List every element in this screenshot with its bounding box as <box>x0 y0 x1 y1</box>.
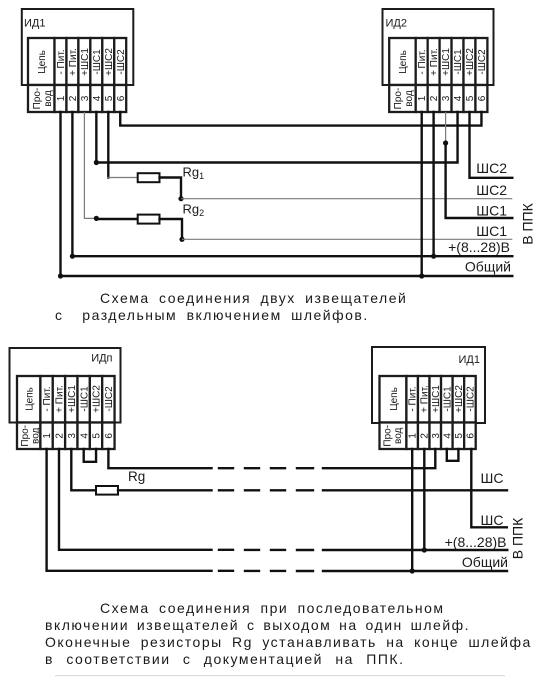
wire: resistor Rg2 to ШС1 line <box>160 219 183 239</box>
svg-text:-ШС2: -ШС2 <box>477 49 488 75</box>
wire: ИД2 pin3 to ШС1 line (to ППК) <box>446 143 513 218</box>
junction node at Rg2 input <box>94 216 99 221</box>
junction node ИД2 pin1 on Общий line <box>419 273 424 278</box>
terminal strip of ИДп: Провод row with pin numbers 1-6 <box>17 423 115 450</box>
wire: dashed middle of Общий line <box>219 570 313 573</box>
junction node at ИД1 pin2 corner <box>70 254 75 259</box>
pin labels of ИДп <box>24 385 115 413</box>
svg-text:+ШС2: +ШС2 <box>104 48 115 76</box>
svg-text:включении извещателей с выходо: включении извещателей с выходом на один … <box>45 617 470 633</box>
svg-text:ШС: ШС <box>481 512 504 528</box>
wire: dashed middle of +(8...28)В line <box>219 549 313 552</box>
junction node at ИД1 pin4 corner <box>94 160 99 165</box>
svg-text:2: 2 <box>419 433 430 439</box>
wire: resistor Rg1 to ШС2 line <box>160 178 182 199</box>
svg-text:1: 1 <box>408 433 419 439</box>
svg-text:4: 4 <box>442 433 453 439</box>
svg-text:ШС2: ШС2 <box>476 182 507 198</box>
pin labels of ИД2 <box>398 48 488 76</box>
svg-text:Rg2: Rg2 <box>183 202 205 219</box>
svg-text:ШС1: ШС1 <box>476 223 507 239</box>
caption of top diagram <box>55 290 407 323</box>
terminal strip X1 of ИД1: Провод row with pin numbers 1-6 <box>28 85 127 112</box>
junction node on ИД2 pin3 wire <box>443 140 448 145</box>
svg-text:Общий: Общий <box>465 259 511 275</box>
junction node bottom ИД1 pin2 <box>422 547 427 552</box>
caption of bottom diagram <box>45 600 532 667</box>
svg-text:Rg: Rg <box>128 469 145 484</box>
resistor Rg <box>96 486 118 495</box>
wire: ШС line from Rg to ППК (solid left) <box>118 489 212 491</box>
svg-text:Цепь: Цепь <box>37 50 48 74</box>
scan artifact line at bottom <box>55 675 505 676</box>
svg-text:-ШС1: -ШС1 <box>92 49 103 75</box>
svg-text:-ШС1: -ШС1 <box>453 49 464 75</box>
svg-text:+ШС1: +ШС1 <box>441 48 452 76</box>
wire: ИДп pin3 down to resistor Rg <box>71 449 96 490</box>
svg-text:Про-: Про- <box>32 88 43 110</box>
svg-text:вод: вод <box>31 427 42 444</box>
pin labels of ИД1 <box>37 48 127 76</box>
svg-text:Общий: Общий <box>462 554 508 570</box>
resistor Rg2 <box>138 215 160 224</box>
svg-text:-ШС2: -ШС2 <box>466 386 477 412</box>
svg-text:4: 4 <box>92 95 103 101</box>
svg-text:вод: вод <box>43 90 54 107</box>
svg-text:Схема соединения при последова: Схема соединения при последовательном <box>100 600 444 616</box>
wire: ШС1 line (thin) from Rg2 to ППК <box>182 238 512 240</box>
svg-text:в соответствии с документацией: в соответствии с документацией на ППК. <box>45 651 404 667</box>
wire: ИД2 pin3 thin drop <box>445 112 447 143</box>
svg-text:4: 4 <box>453 95 464 101</box>
wire: +(8...28)В line from ИД1 pin2 to ППК <box>72 112 512 256</box>
svg-text:Про-: Про- <box>393 88 404 110</box>
wire: +(8...28)В line from ИДп pin2 (solid left) <box>59 449 212 550</box>
junction node bottom ИД1 pin1 <box>410 568 415 573</box>
svg-text:+ШС2: +ШС2 <box>465 48 476 76</box>
wire: solid right part of ШС line to ППК <box>323 489 507 491</box>
wire: bottom ИД1 pin1 drop to Общий line <box>411 449 413 571</box>
svg-text:+ШС2: +ШС2 <box>454 385 465 413</box>
svg-text:-ШС1: -ШС1 <box>442 386 453 412</box>
svg-text:Схема соединения двух извещате: Схема соединения двух извещателей <box>100 290 407 306</box>
svg-text:6: 6 <box>104 433 115 439</box>
wire: ИДп pin6 to bottom ИД1 pin3 (loop ШС link, solid left part) <box>108 449 211 468</box>
svg-text:2: 2 <box>55 433 66 439</box>
svg-text:3: 3 <box>431 433 442 439</box>
svg-text:+ Пит.: + Пит. <box>68 48 79 76</box>
svg-text:+ Пит.: + Пит. <box>419 385 430 413</box>
svg-text:с раздельным включением шлейф: с раздельным включением шлейфов. <box>55 307 369 323</box>
wire: bottom ИД1 pin2 drop to +(8...28)В line <box>423 449 425 550</box>
svg-text:- Пит.: - Пит. <box>408 386 419 411</box>
wire: dashed middle of loop ШС link <box>219 467 313 469</box>
svg-text:6: 6 <box>466 433 477 439</box>
svg-text:+ Пит.: + Пит. <box>55 385 66 413</box>
wire: solid right part of +(8...28)В line to ППК <box>323 549 507 551</box>
svg-text:1: 1 <box>56 95 67 101</box>
svg-text:В ППК: В ППК <box>520 202 536 244</box>
svg-text:-ШС2: -ШС2 <box>104 386 115 412</box>
svg-text:Про-: Про- <box>383 425 394 447</box>
wire: Общий line from ИД1 pin1 to ППК <box>61 112 513 276</box>
svg-text:ИД1: ИД1 <box>24 18 45 30</box>
svg-text:4: 4 <box>79 433 90 439</box>
svg-text:-ШС2: -ШС2 <box>116 49 127 75</box>
detector block U1 "ИД1" outline <box>22 9 134 85</box>
terminal strip of bottom ИД1: Цепь row <box>380 376 476 423</box>
wire: bottom ИД1 pin6 to second ШС line (to ППК) <box>471 449 507 527</box>
wire: solid right part of loop ШС link into ИД1 pin3 <box>323 449 435 468</box>
terminal strip of bottom ИД1: Провод row with pin numbers 1-6 <box>380 423 477 450</box>
svg-text:1: 1 <box>417 95 428 101</box>
svg-text:5: 5 <box>104 95 115 101</box>
svg-text:ШС1: ШС1 <box>476 203 507 219</box>
svg-text:6: 6 <box>116 95 127 101</box>
wire: ИД1 pin6 to ИД2 pin6 (-ШС2 link) <box>120 112 481 126</box>
junction node Rg2 output <box>179 237 184 242</box>
terminal strip X2 of ИД2: Провод row with pin numbers 1-6 <box>389 85 488 112</box>
wire: thin lead into resistor Rg1 <box>107 177 138 179</box>
svg-text:+ШС1: +ШС1 <box>67 385 78 413</box>
wire: ИД1 pin4 to ИД2 pin4 (-ШС1 link) <box>96 112 457 163</box>
svg-text:+ Пит.: + Пит. <box>429 48 440 76</box>
svg-text:+ШС1: +ШС1 <box>80 48 91 76</box>
svg-text:Rg1: Rg1 <box>183 165 205 182</box>
wire: ИД2 pin5 to ШС2 line (to ППК) <box>470 112 513 178</box>
detector block U2 "ИД2" outline <box>383 9 494 85</box>
svg-text:вод: вод <box>393 427 404 444</box>
svg-text:Оконечные резисторы Rg устанав: Оконечные резисторы Rg устанавливать на … <box>45 634 532 650</box>
svg-text:Цепь: Цепь <box>389 387 400 411</box>
detector block "ИД1" (bottom) outline <box>372 347 485 423</box>
svg-text:Цепь: Цепь <box>398 50 409 74</box>
svg-text:1: 1 <box>42 433 53 439</box>
svg-text:6: 6 <box>477 95 488 101</box>
svg-text:2: 2 <box>68 95 79 101</box>
pin labels of bottom ИД1 <box>389 385 477 413</box>
svg-text:+(8...28)В: +(8...28)В <box>448 239 510 255</box>
wire: Общий line from ИДп pin1 (solid left) <box>47 449 212 571</box>
wire: ИД1 pin3 (thin) down to resistor Rg2 <box>84 112 96 218</box>
svg-text:- Пит.: - Пит. <box>42 386 53 411</box>
terminal strip of ИДп: Цепь row <box>17 376 115 423</box>
svg-text:ИДп: ИДп <box>91 353 112 365</box>
svg-text:5: 5 <box>465 95 476 101</box>
resistor Rg1 <box>138 173 160 182</box>
wire: ШС2 line (thin) from Rg1 to ППК <box>181 198 512 200</box>
svg-text:ИД1: ИД1 <box>459 354 480 366</box>
svg-text:+(8...28)В: +(8...28)В <box>445 534 507 550</box>
wire: ИД1 pin5 down to resistor Rg1 <box>107 112 109 178</box>
junction node ИД2 pin2 on +(8...28)В line <box>431 254 436 259</box>
svg-text:+ШС1: +ШС1 <box>431 385 442 413</box>
svg-text:ИД2: ИД2 <box>386 18 407 30</box>
terminal strip X1 of ИД1: Цепь row <box>28 38 126 85</box>
junction node at ИД1 pin1 corner <box>58 273 63 278</box>
svg-text:+ШС2: +ШС2 <box>92 385 103 413</box>
wire: jumper pin4-pin5 of ИДп <box>84 449 96 462</box>
detector block "ИДп" outline <box>10 348 121 423</box>
svg-text:3: 3 <box>67 433 78 439</box>
svg-text:- Пит.: - Пит. <box>417 49 428 74</box>
svg-text:5: 5 <box>92 433 103 439</box>
wire: lead into resistor Rg2 <box>96 218 137 220</box>
svg-text:- Пит.: - Пит. <box>56 49 67 74</box>
terminal strip X2 of ИД2: Цепь row <box>389 38 487 85</box>
svg-text:2: 2 <box>429 95 440 101</box>
svg-text:Про-: Про- <box>20 425 31 447</box>
svg-text:3: 3 <box>441 95 452 101</box>
wire: ИД2 pin1 drop to Общий line <box>421 112 423 276</box>
svg-text:3: 3 <box>80 95 91 101</box>
wire: ИД2 pin2 drop to +(8...28)В line <box>432 112 434 256</box>
svg-text:ШС: ШС <box>481 470 504 486</box>
svg-text:вод: вод <box>404 90 415 107</box>
svg-text:В ППК: В ППК <box>510 517 526 559</box>
svg-text:Цепь: Цепь <box>24 387 35 411</box>
wire: jumper pin4-pin5 of bottom ИД1 <box>447 449 459 461</box>
svg-text:5: 5 <box>454 433 465 439</box>
junction node Rg1 output <box>178 196 183 201</box>
wire: dashed middle of ШС line <box>219 489 313 491</box>
svg-text:-ШС1: -ШС1 <box>79 386 90 412</box>
svg-text:ШС2: ШС2 <box>476 160 507 176</box>
wire: solid right part of Общий line to ППК <box>323 570 507 572</box>
